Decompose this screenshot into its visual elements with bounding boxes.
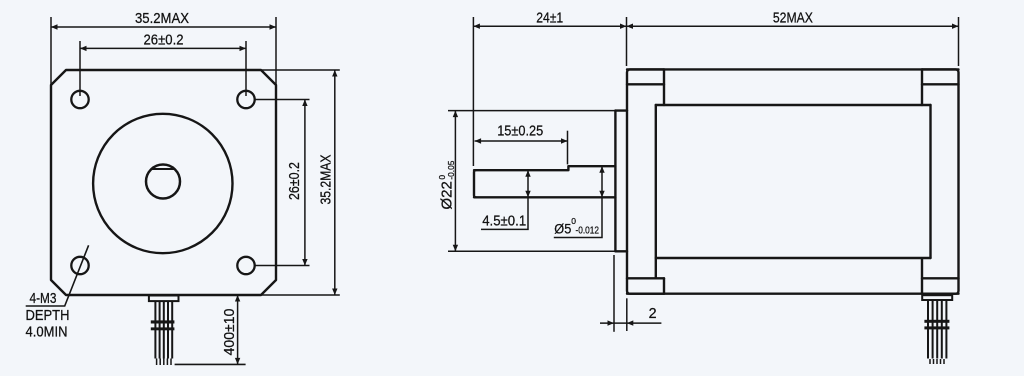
dim 35.2MAX top: dimension line [51,26,276,28]
mounting hole bottom-left [71,257,88,274]
dim 26±0.2 right: extension lines [256,99,310,101]
dim 35.2MAX right: dimension line [334,70,336,295]
svg-text:-0.05: -0.05 [446,160,456,179]
side view stator body right edge [929,105,931,258]
wire frayed ends side view [930,359,944,364]
wire band 2 side view [924,326,949,329]
side view front plate inner edge bottom segment [663,278,665,293]
arrows 24±1 [473,24,480,29]
dim 35.2MAX top: extension lines [50,17,52,85]
svg-text:4.0MIN: 4.0MIN [26,325,68,341]
svg-text:-0.012: -0.012 [576,225,600,237]
dim 52MAX: dimension line [627,25,959,27]
svg-text:52MAX: 52MAX [773,10,813,26]
wire bundle side view [928,300,946,359]
arrows Ø5 [599,166,604,173]
shaft flat top line [474,166,615,170]
dim 24±1: dimension line [473,25,626,27]
dim 4.5±0.1: leader and dimension line [481,170,528,229]
side view stator body top line [656,104,931,106]
dim 26±0.2 top: dimension line [80,47,246,49]
lead wires side view [922,295,952,364]
side view bottom outer line [627,293,959,295]
connector block side view [922,295,952,300]
side view rear plate inner edge bottom segment [921,259,923,294]
svg-text:Ø22: Ø22 [439,181,456,210]
dim 15±0.25: dimension line [475,140,568,142]
pilot boss front edge [614,111,616,252]
mounting hole bottom-right [237,257,254,274]
side view rear plate outline [922,69,959,293]
dim 35.2MAX right: extension lines [262,69,340,71]
arrows Ø22 [453,111,458,118]
side view stator body left edge [655,105,657,278]
arrows 52MAX [627,24,634,29]
side view front plate chamfer line top [627,83,664,85]
side view front plate chamfer line bottom [627,277,664,279]
svg-text:400±10: 400±10 [221,309,238,356]
svg-text:26±0.2: 26±0.2 [144,33,184,49]
arrows 26±0.2 right [302,100,307,107]
wire bundle front view [155,301,172,358]
wire band 2 front view [151,327,175,330]
arrows 400±10 [235,295,240,302]
dim Ø22: dimension line [454,111,456,252]
arrows 35.2MAX top [51,24,58,29]
lead wires front view [149,296,179,366]
arrows 35.2MAX right [332,70,337,77]
mounting hole top-right [237,91,254,108]
dim 2: dimension line [600,322,661,324]
svg-text:DEPTH: DEPTH [26,308,70,324]
label Ø22 0/-0.05 (rotated) [437,160,456,209]
shaft bottom line [474,196,615,198]
side view stator body bottom line [656,257,931,259]
pilot boss bottom line [615,250,627,252]
svg-text:2: 2 [649,306,657,322]
dim 15±0.25: extension line [567,131,569,165]
dim 2: extension lines [613,255,615,332]
dim 24±1: extension lines [472,17,474,166]
svg-text:35.2MAX: 35.2MAX [135,11,189,27]
svg-text:24±1: 24±1 [536,10,563,26]
svg-text:35.2MAX: 35.2MAX [319,154,335,204]
shaft circle [146,165,180,199]
mounting hole top-left [71,91,88,108]
side view rear plate inner edge top segment [921,69,923,105]
side view front plate inner edge top segment [663,69,665,105]
connector block front view [149,296,179,302]
pilot boss top line [615,109,627,111]
dim Ø5: leader and dimension line [554,166,602,237]
dim 26±0.2 right: dimension line [304,100,306,266]
side view front plate outline [627,69,664,293]
svg-text:4.5±0.1: 4.5±0.1 [482,214,526,230]
wire band 1 front view [151,320,175,323]
side view top outer line [627,68,959,70]
wire band 1 side view [924,320,949,323]
arrows 26±0.2 top [80,46,87,51]
wire frayed ends front view [157,359,171,366]
arrows 4.5±0.1 [525,170,530,177]
side view rear plate chamfer line top [922,83,959,85]
svg-text:26±0.2: 26±0.2 [287,162,303,200]
dim 26±0.2 top: extension lines [79,41,81,96]
arrows 15±0.25 [475,138,482,143]
side view rear plate chamfer line bottom [922,277,959,279]
dim 400±10: dimension line [237,295,239,364]
svg-text:Ø5: Ø5 [554,222,571,237]
svg-text:4-M3: 4-M3 [30,291,57,307]
svg-text:15±0.25: 15±0.25 [497,123,543,139]
pilot circle [93,114,232,253]
shaft tip edge [474,170,476,197]
leader 4-M3 [26,245,89,306]
shaft flat chord [151,168,174,170]
dim Ø22: extension lines [448,110,627,112]
front view body outline (chamfered square) [51,70,276,295]
arrows dim 2 (outside, pointing inward) [608,320,615,325]
dim 400±10: datum line [175,363,246,365]
